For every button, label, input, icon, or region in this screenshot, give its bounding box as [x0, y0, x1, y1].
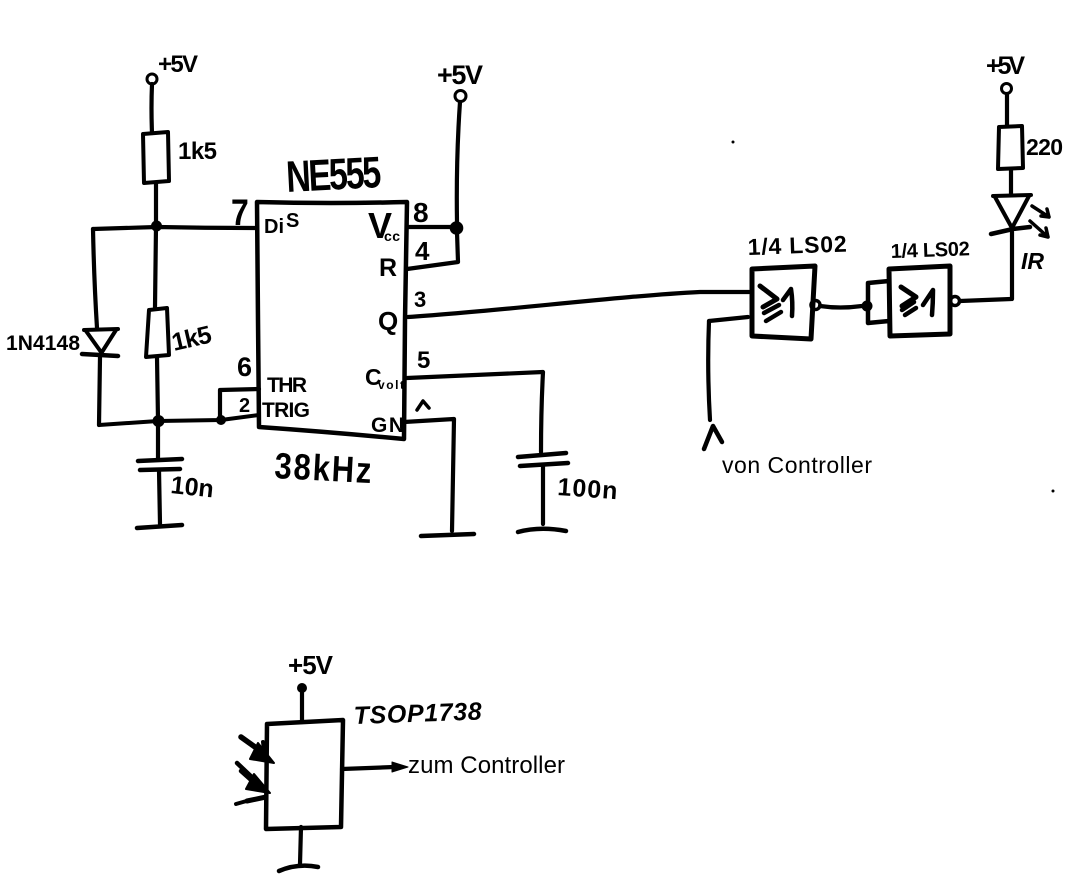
svg-text:1k5: 1k5 [178, 138, 217, 165]
svg-text:GN: GN [371, 414, 404, 437]
svg-text:NE555: NE555 [285, 148, 382, 202]
svg-text:220: 220 [1026, 134, 1063, 160]
svg-text:TRIG: TRIG [262, 399, 310, 422]
svg-text:1N4148: 1N4148 [6, 332, 80, 355]
svg-text:+5V: +5V [437, 60, 483, 90]
svg-text:zum Controller: zum Controller [408, 752, 565, 779]
svg-text:1k5: 1k5 [169, 321, 214, 357]
svg-text:5: 5 [417, 347, 430, 374]
svg-text:100n: 100n [557, 473, 619, 505]
svg-text:THR: THR [267, 374, 307, 397]
svg-text:+5V: +5V [158, 51, 198, 78]
svg-text:+5V: +5V [986, 52, 1025, 80]
svg-text:6: 6 [237, 352, 252, 382]
svg-text:2: 2 [239, 395, 250, 417]
svg-text:8: 8 [413, 197, 429, 228]
svg-text:7: 7 [231, 193, 249, 234]
svg-text:Di: Di [264, 216, 284, 238]
svg-text:von Controller: von Controller [722, 452, 872, 478]
svg-text:1/4 LS02: 1/4 LS02 [747, 231, 847, 260]
svg-text:IR: IR [1021, 248, 1044, 274]
svg-text:1/4 LS02: 1/4 LS02 [890, 238, 970, 263]
svg-text:38kHz: 38kHz [274, 446, 373, 492]
svg-text:10n: 10n [169, 471, 215, 503]
svg-text:Q: Q [378, 306, 398, 336]
svg-text:+5V: +5V [288, 650, 334, 680]
svg-text:TSOP1738: TSOP1738 [353, 698, 482, 730]
svg-text:4: 4 [415, 236, 430, 266]
svg-text:volt: volt [378, 378, 404, 392]
svg-text:cc: cc [384, 228, 400, 244]
svg-text:R: R [379, 254, 397, 282]
svg-text:S: S [286, 210, 299, 232]
svg-text:3: 3 [414, 287, 426, 312]
